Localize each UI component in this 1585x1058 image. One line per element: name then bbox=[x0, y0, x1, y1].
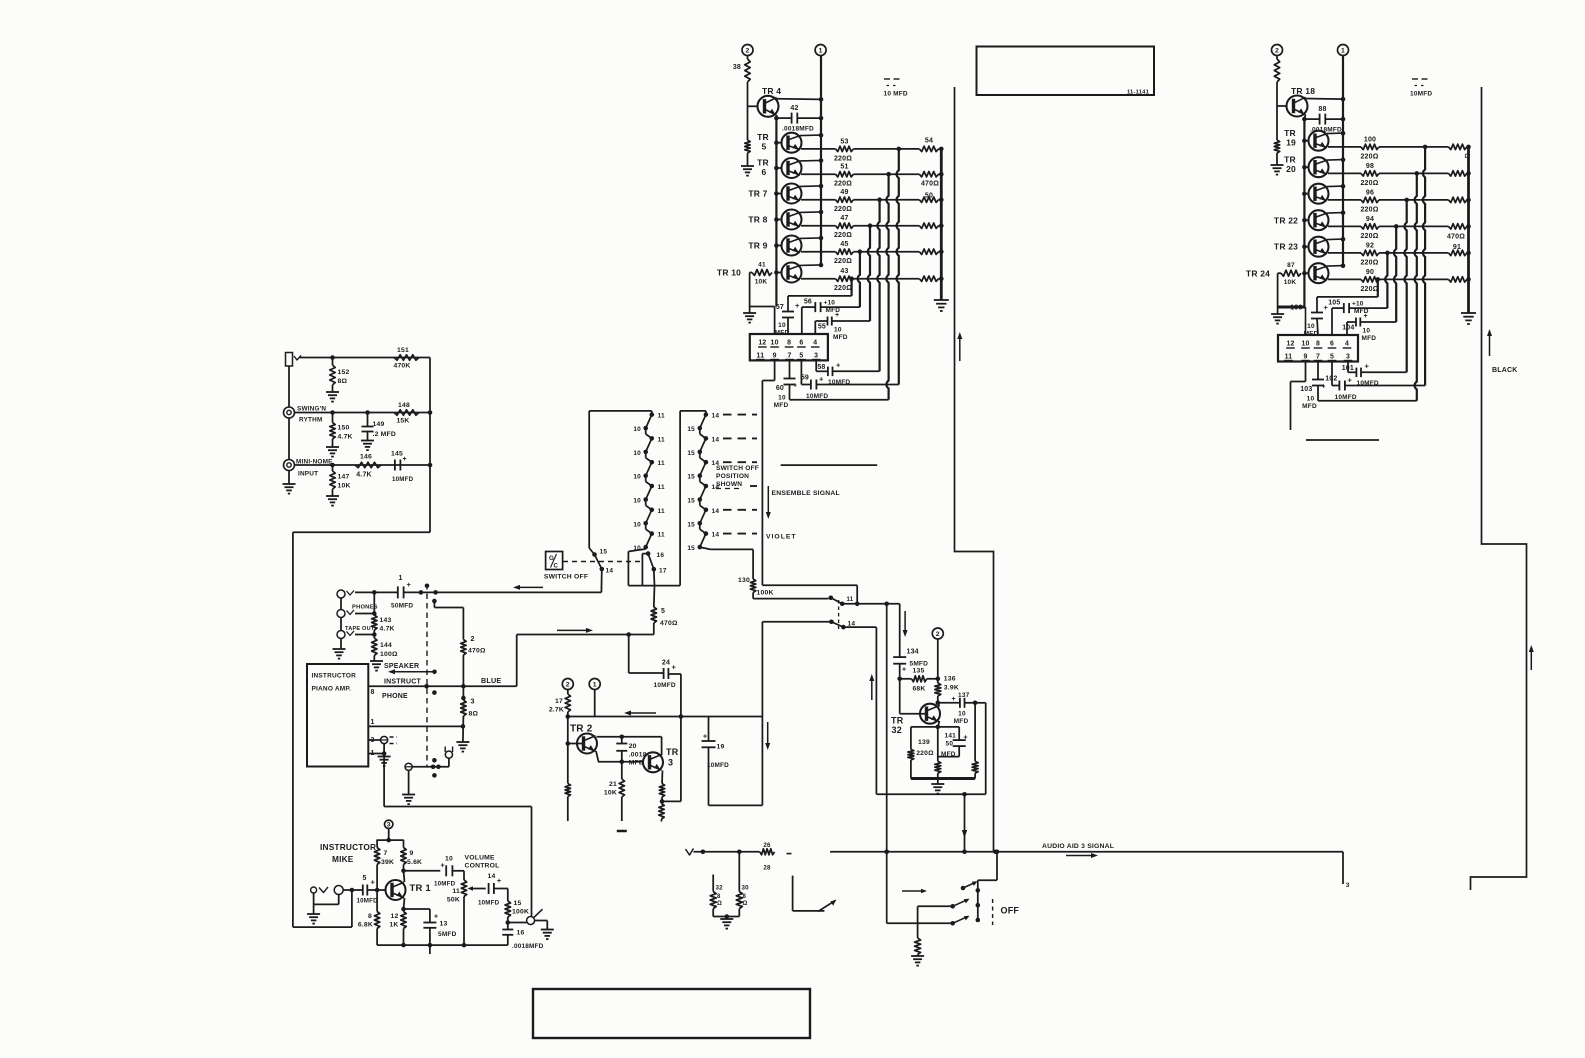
label VIOLET bbox=[766, 534, 797, 541]
dashed line row 2 bbox=[723, 437, 757, 439]
label 14 row 6 bbox=[712, 532, 720, 539]
svg-text:60: 60 bbox=[776, 385, 784, 392]
contact 15/14 (switch off) bbox=[592, 549, 613, 575]
wire res 30/32 bottom bbox=[713, 914, 739, 919]
svg-text:220Ω: 220Ω bbox=[1360, 233, 1378, 240]
transistor TR7 bbox=[782, 184, 822, 204]
svg-text:148: 148 bbox=[398, 402, 410, 409]
wire contact to resistor2 bbox=[434, 601, 463, 640]
gap mark bbox=[787, 853, 792, 855]
svg-text:VIOLET: VIOLET bbox=[766, 534, 797, 541]
svg-text:10K: 10K bbox=[1284, 279, 1297, 286]
wire emitter row TR5 bbox=[801, 148, 836, 150]
svg-text:10MFD: 10MFD bbox=[392, 476, 414, 483]
arrow down cap134 wire bbox=[903, 611, 908, 637]
G/C switch box bbox=[546, 552, 563, 570]
wire r2 to blue bbox=[462, 655, 464, 686]
pin 11 (bottom row right connector) bbox=[1284, 354, 1293, 361]
svg-text:MFD: MFD bbox=[1362, 335, 1377, 342]
transistor TR21 bbox=[1309, 184, 1344, 204]
label SPEAKER bbox=[384, 663, 419, 670]
right bus left bank bbox=[940, 149, 943, 300]
svg-text:19: 19 bbox=[1286, 138, 1296, 148]
base lead TR5 bbox=[774, 140, 781, 145]
svg-text:RYTHM: RYTHM bbox=[299, 417, 322, 424]
wire between right switches 5-6 bbox=[700, 523, 706, 533]
label TR6 bbox=[757, 158, 769, 178]
dashed line row 4 bbox=[750, 485, 757, 487]
pin 4 (top row left connector) bbox=[811, 340, 820, 348]
wire to right bus (right bank) row 6 bbox=[1466, 277, 1471, 282]
switch contact pair left bank row 4 bbox=[643, 484, 654, 502]
stray underline left bank bbox=[781, 464, 878, 466]
transistor TR18 bbox=[1287, 86, 1316, 117]
resistor 45 220ohm bbox=[834, 241, 854, 265]
transistor TR23 bbox=[1309, 237, 1344, 257]
resistor 43 220ohm bbox=[834, 268, 854, 292]
svg-text:16: 16 bbox=[657, 552, 665, 559]
svg-text:12: 12 bbox=[1286, 341, 1294, 348]
switch lever mid (audio) bbox=[793, 876, 836, 912]
svg-text:53: 53 bbox=[840, 138, 848, 145]
svg-text:17: 17 bbox=[555, 698, 563, 705]
wire between left switches 5-6 bbox=[646, 523, 652, 533]
capacitor 106 10MFD bbox=[1290, 297, 1328, 338]
arrow left on TR2 rail bbox=[624, 711, 656, 716]
pin 3 (bottom row right connector) bbox=[1344, 354, 1353, 361]
label AUDIO AID 3 SIGNAL bbox=[1042, 843, 1114, 850]
ground below TR24 bbox=[1271, 314, 1284, 324]
pin 8 (top row left connector) bbox=[785, 340, 794, 348]
wire pin9 to ensemble drop bbox=[762, 360, 774, 380]
svg-text:54: 54 bbox=[925, 138, 933, 145]
label TR22 bbox=[1274, 216, 1298, 226]
switch contact pair left bank row 3 bbox=[643, 460, 654, 478]
wire cap14 to R15 bbox=[494, 889, 508, 902]
svg-text:PHONE: PHONE bbox=[382, 693, 408, 700]
wire TR18 emitter to column bbox=[1304, 115, 1305, 119]
capacitor 103 10MFD bbox=[1300, 362, 1326, 411]
ground right bus left bank bbox=[934, 300, 949, 311]
dot collector bus TR22 bbox=[1341, 210, 1346, 215]
svg-text:147: 147 bbox=[338, 474, 350, 481]
svg-text:15: 15 bbox=[687, 545, 695, 552]
wire emitter node left bbox=[911, 726, 938, 728]
base lead TR6 bbox=[774, 166, 781, 171]
resistor 8 6.8K bbox=[358, 890, 380, 945]
wire term3 to bias rail bbox=[388, 829, 390, 841]
svg-text:30: 30 bbox=[742, 885, 750, 892]
svg-text:8: 8 bbox=[368, 913, 372, 920]
base lead TR9 bbox=[774, 243, 781, 248]
svg-text:3: 3 bbox=[471, 699, 475, 706]
wire between left switches 3-4 bbox=[646, 476, 652, 486]
svg-text:100: 100 bbox=[1364, 136, 1376, 143]
svg-text:10: 10 bbox=[633, 498, 641, 505]
label 10 row 4 bbox=[633, 498, 641, 505]
label TR7 bbox=[748, 189, 767, 199]
label BLACK bbox=[1492, 367, 1518, 374]
transistor TR6 bbox=[782, 158, 822, 178]
svg-text:+: + bbox=[952, 696, 956, 703]
svg-text:470Ω: 470Ω bbox=[921, 181, 939, 188]
label 470ohm (right bank) bbox=[1447, 234, 1465, 241]
capacitor 105 10MFD bbox=[1328, 300, 1387, 336]
resistor right (loop) bbox=[972, 703, 978, 779]
blue riser bbox=[516, 635, 518, 687]
bias rail bbox=[376, 838, 403, 843]
label INSTRUCTOR MIKE bbox=[320, 842, 376, 864]
svg-text:11: 11 bbox=[658, 508, 665, 515]
switch contact pair left bank row 5 bbox=[643, 508, 654, 526]
transistor TR1 bbox=[386, 880, 406, 900]
wire base TR18 bbox=[1277, 105, 1287, 107]
dashed line row 6 bbox=[723, 533, 757, 535]
svg-text:Ω: Ω bbox=[717, 901, 722, 907]
base lead TR24 bbox=[1302, 271, 1308, 276]
wire left bank bottom to contact 15 bbox=[589, 548, 594, 555]
svg-text:TR 23: TR 23 bbox=[1274, 242, 1298, 252]
ground under R144 bbox=[370, 661, 383, 671]
svg-text:11: 11 bbox=[658, 532, 665, 539]
label SWING'N RYTHM bbox=[297, 406, 326, 424]
label 54 bbox=[925, 138, 933, 145]
wire emitter row TR6 bbox=[801, 173, 836, 175]
svg-text:OFF: OFF bbox=[1001, 906, 1020, 916]
label TR9 bbox=[748, 241, 767, 251]
label TR5 bbox=[757, 132, 769, 152]
wire junction to right resistor row 2 bbox=[889, 173, 920, 175]
svg-text:TR 22: TR 22 bbox=[1274, 216, 1298, 226]
wire junction to right resistor (right bank) row 2 bbox=[1417, 172, 1449, 174]
resistor 2 470ohm bbox=[461, 636, 486, 655]
svg-text:45: 45 bbox=[840, 241, 848, 248]
wire to right bus row 4 bbox=[939, 223, 944, 228]
label 11 row 4 bbox=[658, 484, 665, 491]
wire row 92 to junction bbox=[1379, 251, 1390, 256]
wire cap13 to rail bbox=[429, 928, 431, 945]
svg-text:+: + bbox=[497, 878, 501, 885]
svg-text:55: 55 bbox=[818, 324, 826, 331]
svg-text:1: 1 bbox=[593, 681, 597, 688]
wire contact11 row bbox=[842, 602, 900, 607]
right-side resistor row 2 (right bank) bbox=[1449, 171, 1468, 176]
terminal 1 (TR2) bbox=[589, 679, 600, 690]
vertical from row96 junction bbox=[1404, 200, 1406, 372]
capacitor 57 10MFD bbox=[775, 296, 800, 337]
svg-text:MFD: MFD bbox=[774, 402, 789, 409]
wire junction to right resistor row 3 bbox=[880, 199, 920, 201]
svg-text:43: 43 bbox=[840, 268, 848, 275]
pin 12 (top row right connector) bbox=[1286, 341, 1295, 349]
label 11 row 3 bbox=[658, 460, 665, 467]
svg-text:24: 24 bbox=[662, 660, 670, 667]
label 14 row 1 bbox=[712, 413, 720, 420]
svg-text:14: 14 bbox=[712, 436, 720, 443]
svg-text:SHOWN: SHOWN bbox=[716, 481, 742, 488]
svg-text:10: 10 bbox=[778, 322, 786, 329]
jack SWING'N RYTHM bbox=[284, 366, 295, 418]
capacitor 10 10MFD bbox=[434, 856, 456, 888]
svg-text:32: 32 bbox=[716, 885, 724, 892]
resistor 9 5.6K bbox=[401, 840, 422, 871]
resistor 98 220ohm bbox=[1360, 163, 1379, 187]
label 10 row 6 bbox=[633, 545, 641, 552]
svg-text:102: 102 bbox=[1325, 376, 1337, 383]
svg-text:15: 15 bbox=[687, 521, 695, 528]
wire row 100 to junction bbox=[1379, 145, 1427, 150]
label 15 row 6 bbox=[687, 545, 695, 552]
resistor 100 220ohm bbox=[1360, 136, 1379, 160]
wire to right bus (right bank) row 4 bbox=[1466, 224, 1471, 229]
svg-text:5MFD: 5MFD bbox=[438, 931, 457, 938]
wire between phone jacks bbox=[340, 598, 342, 648]
arrow audio direction bbox=[1066, 853, 1098, 858]
vertical from row53 junction bbox=[897, 149, 899, 385]
switch contact pair right bank row 6 bbox=[698, 531, 709, 549]
svg-text:57: 57 bbox=[776, 304, 784, 311]
capacitor 137 10MFD bbox=[938, 692, 978, 725]
transistor TR8 bbox=[782, 210, 822, 230]
wire to cap10 bbox=[404, 870, 441, 872]
svg-text:9: 9 bbox=[410, 850, 414, 857]
wire bottom horizontal right connector area bbox=[1318, 400, 1417, 402]
svg-text:11: 11 bbox=[658, 484, 665, 491]
pin 10 (top row right connector) bbox=[1301, 341, 1310, 349]
svg-text:101: 101 bbox=[1342, 365, 1354, 372]
right resistor row 4 bbox=[919, 223, 938, 228]
svg-text:10K: 10K bbox=[604, 790, 617, 797]
audio jack left bbox=[686, 849, 706, 856]
pin 3 (bottom row left connector) bbox=[812, 353, 821, 360]
svg-text:15: 15 bbox=[600, 549, 608, 556]
pin 5 (bottom row left connector) bbox=[797, 353, 806, 360]
vertical from row45 junction bbox=[858, 252, 860, 307]
svg-text:2: 2 bbox=[746, 47, 750, 54]
svg-text:5MFD: 5MFD bbox=[910, 661, 929, 668]
svg-text:92: 92 bbox=[1366, 242, 1374, 249]
resistor 87 10K bbox=[1281, 262, 1301, 286]
svg-text:SWITCH OFF: SWITCH OFF bbox=[716, 465, 759, 472]
wire jack to ground bbox=[535, 921, 548, 930]
resistor below TR2 bbox=[565, 784, 570, 822]
vertical from row92 junction bbox=[1385, 253, 1387, 308]
capacitor 24 10MFD bbox=[626, 632, 681, 689]
label TR24 bbox=[1246, 269, 1270, 279]
pot wiper arrow bbox=[468, 886, 475, 891]
svg-text:3: 3 bbox=[387, 822, 391, 829]
off contact row3 bbox=[887, 916, 980, 926]
plug dashes bbox=[390, 737, 398, 744]
vertical from row47 junction bbox=[868, 226, 870, 321]
label TR32 bbox=[891, 716, 904, 736]
svg-text:3: 3 bbox=[668, 758, 673, 768]
TR2 collector wire bbox=[597, 735, 662, 740]
ground below off switch bbox=[911, 956, 924, 966]
wire term2 to R136 bbox=[937, 639, 939, 683]
svg-text:5: 5 bbox=[799, 353, 803, 360]
svg-text:TAPE OUT: TAPE OUT bbox=[345, 626, 375, 632]
wire r3 to ground bbox=[462, 716, 465, 742]
wire jack column to ground bbox=[288, 471, 290, 485]
phones jack wipers bbox=[347, 591, 355, 636]
wire row 96 to junction bbox=[1379, 198, 1409, 203]
base lead TR19 bbox=[1302, 138, 1308, 143]
svg-text:4.7K: 4.7K bbox=[380, 626, 395, 633]
label BLUE bbox=[481, 676, 501, 685]
ground TR32 bbox=[931, 779, 944, 794]
svg-text:15K: 15K bbox=[396, 418, 409, 425]
base lead TR20 bbox=[1302, 165, 1308, 170]
label 91 bbox=[1453, 244, 1461, 251]
label 10 row 5 bbox=[633, 521, 641, 528]
terminal 3 bbox=[385, 820, 393, 829]
svg-text:11: 11 bbox=[658, 436, 665, 443]
svg-text:10: 10 bbox=[834, 327, 842, 334]
dot collector bus TR5 bbox=[819, 133, 824, 138]
svg-text:1: 1 bbox=[1341, 47, 1345, 54]
wire bottom horizontal left connector area bbox=[790, 399, 889, 401]
svg-text:+: + bbox=[902, 667, 906, 674]
label TR10 bbox=[717, 268, 741, 278]
svg-text:+: + bbox=[1348, 376, 1353, 385]
right vertical swing section bbox=[428, 358, 433, 533]
wire term1 down bbox=[594, 690, 596, 717]
capacitor 42 wire bbox=[774, 116, 823, 121]
arrow down beside riser bbox=[765, 722, 770, 750]
svg-text:2: 2 bbox=[566, 681, 570, 688]
label INSTRUCT PHONE bbox=[382, 679, 422, 701]
label 14 row 4 bbox=[712, 484, 720, 491]
capacitor 14 10MFD bbox=[478, 873, 501, 907]
svg-text:+: + bbox=[434, 914, 438, 921]
svg-text:28: 28 bbox=[763, 865, 771, 872]
resistor 146 4.7K bbox=[355, 454, 381, 479]
svg-text:4: 4 bbox=[1345, 341, 1349, 348]
capacitor 88 wire bbox=[1302, 117, 1345, 122]
wire emitter row TR10 bbox=[801, 278, 836, 280]
resistor 135 68K bbox=[900, 668, 940, 693]
svg-text:220Ω: 220Ω bbox=[834, 206, 852, 213]
dot collector bus TR20 bbox=[1341, 157, 1346, 162]
svg-text:220Ω: 220Ω bbox=[916, 750, 934, 757]
svg-text:+: + bbox=[835, 312, 839, 319]
label 11 row 2 bbox=[658, 436, 665, 443]
label TR8 bbox=[748, 215, 767, 225]
svg-text:19: 19 bbox=[717, 744, 725, 751]
label 11-1141 bbox=[1127, 90, 1150, 96]
svg-text:+10: +10 bbox=[824, 300, 836, 307]
svg-text:15: 15 bbox=[687, 474, 695, 481]
tape out wire bbox=[355, 632, 377, 637]
svg-text:11: 11 bbox=[658, 413, 665, 420]
svg-text:1: 1 bbox=[819, 47, 823, 54]
svg-text:TR: TR bbox=[1284, 128, 1296, 138]
svg-text:14: 14 bbox=[488, 873, 496, 880]
svg-text:10: 10 bbox=[633, 450, 641, 457]
resistor mid (emitter) bbox=[935, 727, 941, 779]
svg-text:90: 90 bbox=[1366, 269, 1374, 276]
svg-text:94: 94 bbox=[1366, 216, 1374, 223]
svg-text:14: 14 bbox=[712, 413, 720, 420]
label TAPE OUT bbox=[345, 626, 375, 632]
svg-text:MFD: MFD bbox=[954, 718, 969, 725]
svg-text:11: 11 bbox=[452, 888, 460, 895]
jack circle 2 phones bbox=[337, 610, 345, 618]
connector block (right) bbox=[1278, 335, 1358, 362]
TR1 emitter wire bbox=[401, 898, 406, 911]
vertical from row49 junction bbox=[877, 200, 879, 372]
svg-text:Ω: Ω bbox=[743, 901, 748, 907]
resistor 5 470ohm bbox=[651, 586, 678, 635]
label TR3 bbox=[666, 747, 679, 768]
ground under input jacks bbox=[283, 484, 296, 494]
svg-text:14: 14 bbox=[712, 532, 720, 539]
capacitor 104 10MFD bbox=[1342, 313, 1396, 342]
arrow right on blue rail bbox=[557, 628, 593, 633]
transistor TR5 bbox=[782, 133, 822, 153]
stray underline right bank bbox=[1306, 439, 1379, 441]
wire emitter row TR19 bbox=[1328, 146, 1361, 148]
svg-text:4.7K: 4.7K bbox=[338, 434, 353, 441]
svg-text:103: 103 bbox=[1300, 386, 1312, 393]
wire TR18 collector to bus bbox=[1306, 97, 1346, 102]
svg-text:14: 14 bbox=[712, 508, 720, 515]
dot collector bus TR9 bbox=[819, 236, 824, 241]
wire cap134 to TR32 base bbox=[900, 679, 927, 714]
empty box bottom bbox=[533, 989, 810, 1038]
svg-text:8: 8 bbox=[1316, 341, 1320, 348]
resistor bias right column bbox=[1274, 106, 1279, 165]
right resistor row 3 bbox=[919, 197, 938, 202]
title box top bbox=[977, 47, 1155, 96]
wire between right switches 3-4 bbox=[700, 476, 706, 486]
svg-text:42: 42 bbox=[790, 105, 798, 112]
terminal 2 (TR2) bbox=[562, 679, 573, 690]
wire to TR18 base bbox=[1276, 82, 1278, 106]
svg-text:13: 13 bbox=[440, 921, 448, 928]
svg-text:11: 11 bbox=[757, 353, 765, 360]
label INSTRUCTOR PIANO AMP bbox=[312, 673, 357, 693]
wire between left switches 4-5 bbox=[646, 500, 652, 510]
pin 5 (bottom row right connector) bbox=[1328, 354, 1337, 361]
wire jack to cap5 bbox=[343, 888, 363, 893]
svg-text:8Ω: 8Ω bbox=[338, 378, 348, 385]
ground under R150 bbox=[326, 447, 339, 457]
svg-text:15: 15 bbox=[514, 900, 522, 907]
svg-text:91: 91 bbox=[1453, 244, 1461, 251]
svg-text:144: 144 bbox=[380, 642, 392, 649]
resistor below TR3 bbox=[659, 784, 664, 804]
wire to right bus row 3 bbox=[939, 197, 944, 202]
svg-text:+: + bbox=[793, 383, 797, 390]
switch contact pair right bank row 3 bbox=[698, 460, 709, 478]
connector block T2 (left) bbox=[750, 334, 828, 360]
wire to right bus (right bank) row 3 bbox=[1466, 198, 1471, 203]
dashed wire G/C to contacts bbox=[563, 561, 643, 563]
switch box bottom wire bbox=[628, 585, 680, 587]
svg-text:47: 47 bbox=[840, 215, 848, 222]
wire last left switch to box bbox=[628, 547, 645, 585]
svg-text:1K: 1K bbox=[389, 922, 398, 929]
svg-text:INSTRUCT: INSTRUCT bbox=[384, 679, 422, 686]
arrow up TR32 loop bbox=[869, 674, 874, 700]
wire term2 to R38 bbox=[747, 56, 749, 60]
svg-text:+: + bbox=[819, 375, 824, 384]
svg-text:2.7K: 2.7K bbox=[549, 707, 564, 714]
wire row 90 to junction bbox=[1376, 277, 1381, 282]
terminal 1 (left bank) bbox=[815, 45, 826, 56]
